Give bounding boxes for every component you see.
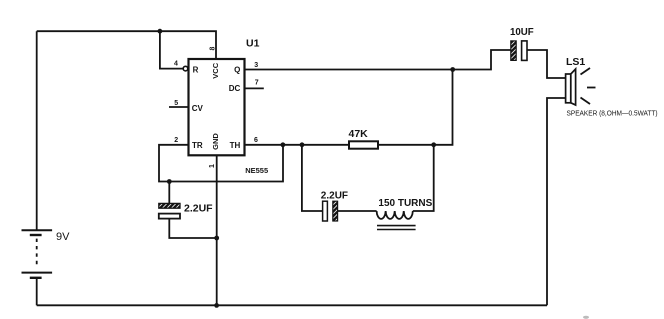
wire cap C1 top lead	[168, 182, 170, 204]
svg-text:8: 8	[209, 47, 216, 51]
wire resistor to Q-node riser	[378, 70, 453, 145]
wire cap C1 bottom lead	[169, 219, 216, 238]
stray mark	[583, 316, 589, 319]
capacitor C3 10UF (coupling, vertical plates)	[511, 41, 527, 61]
wire cap C2 to coil	[338, 210, 377, 212]
wire TR to node	[159, 145, 283, 182]
op-amp U1 IC NE555 body	[183, 59, 244, 155]
node TR/TH tie	[281, 142, 286, 147]
capacitor C2 2.2UF (series, vertical plates)	[323, 201, 338, 221]
inductor L1 150 TURNS coil	[377, 211, 413, 219]
svg-text:7: 7	[255, 80, 259, 87]
speaker sound waves	[581, 68, 596, 104]
wire Q output	[245, 50, 511, 70]
wire bottom rail	[37, 304, 547, 306]
svg-text:U1: U1	[246, 38, 260, 50]
svg-text:2: 2	[174, 137, 178, 144]
svg-text:CV: CV	[192, 104, 204, 113]
svg-text:TH: TH	[230, 141, 241, 150]
svg-text:VCC: VCC	[211, 62, 220, 78]
node Q output tee	[450, 67, 455, 72]
svg-text:LS1: LS1	[566, 56, 585, 68]
wire VCC feed	[160, 31, 216, 59]
svg-text:3: 3	[254, 62, 258, 69]
node ground rail tie	[214, 303, 219, 308]
node junction dots	[158, 29, 456, 308]
node C1 top tie	[167, 179, 172, 184]
wire speaker bottom return	[547, 98, 566, 305]
node LC branch top	[300, 142, 305, 147]
svg-text:2.2UF: 2.2UF	[184, 203, 213, 215]
svg-text:NE555: NE555	[245, 166, 268, 175]
svg-text:R: R	[193, 65, 199, 74]
svg-text:2.2UF: 2.2UF	[321, 190, 348, 201]
battery BT1 9V	[22, 230, 53, 277]
wire left rail	[36, 31, 38, 230]
inductor core lines	[377, 226, 416, 230]
node coil riser	[431, 142, 436, 147]
wire pin5 stub	[169, 106, 188, 108]
svg-text:4: 4	[174, 61, 178, 68]
svg-text:GND: GND	[211, 133, 220, 150]
wire cap C3 to speaker top	[527, 50, 566, 78]
wire pin7 stub	[245, 87, 264, 89]
wire TH to resistor	[245, 144, 350, 146]
wire reset branch	[160, 31, 183, 68]
svg-text:Q: Q	[234, 65, 240, 74]
svg-text:1: 1	[209, 164, 216, 168]
svg-text:47K: 47K	[349, 128, 369, 140]
svg-text:10UF: 10UF	[510, 27, 534, 38]
resistor 47K	[349, 141, 378, 148]
svg-text:150 TURNS: 150 TURNS	[378, 198, 432, 209]
node top rail junction	[158, 29, 163, 34]
wire top rail	[37, 30, 160, 32]
svg-text:DC: DC	[229, 84, 241, 93]
svg-text:6: 6	[254, 137, 258, 144]
svg-text:5: 5	[174, 100, 178, 107]
wire GND pin drop	[216, 155, 218, 305]
svg-text:TR: TR	[192, 141, 203, 150]
node C1 bottom tie	[214, 236, 219, 241]
svg-text:9V: 9V	[56, 231, 70, 243]
capacitor C1 2.2UF (timing, horizontal plates)	[159, 203, 180, 218]
wire LC branch down	[302, 145, 323, 211]
svg-text:SPEAKER (8,OHM—0.5WATT): SPEAKER (8,OHM—0.5WATT)	[567, 108, 658, 117]
speaker LS1	[566, 69, 576, 105]
wire coil to riser	[413, 145, 434, 211]
wire battery to bottom rail	[36, 278, 38, 306]
